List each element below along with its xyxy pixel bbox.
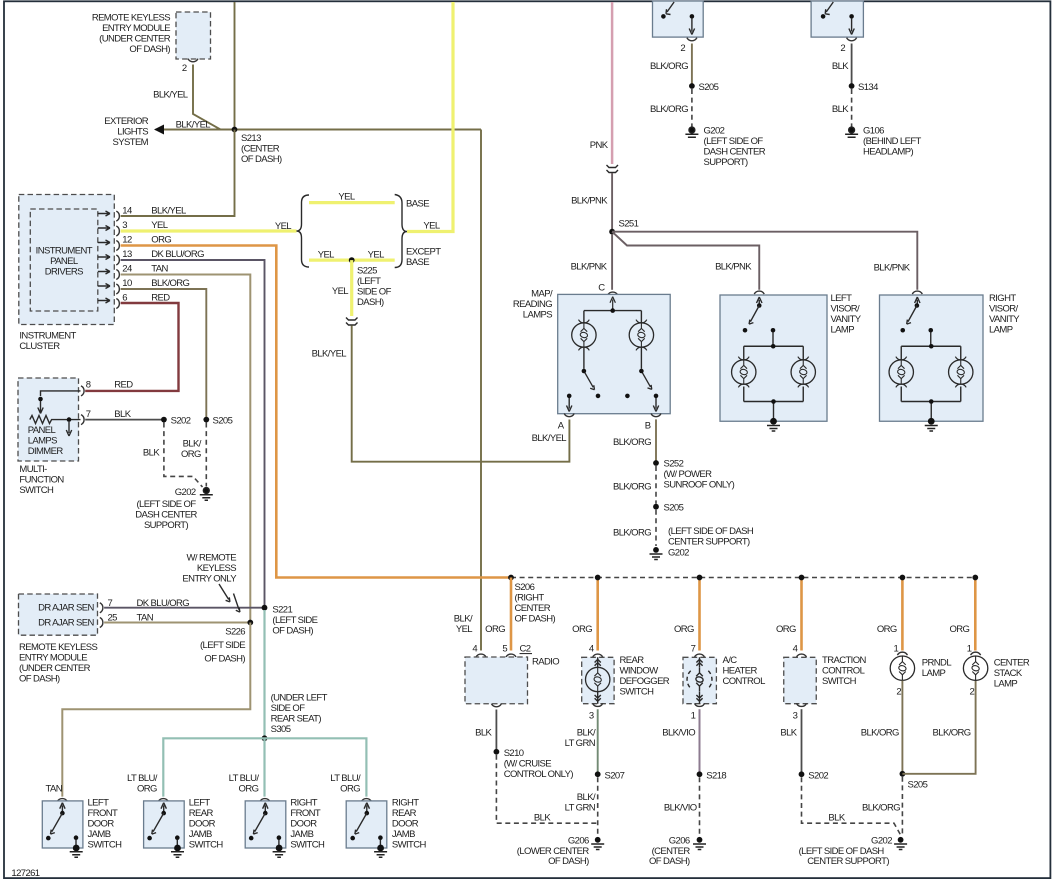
svg-text:BLK/ORG: BLK/ORG xyxy=(613,437,651,448)
svg-text:(RIGHT: (RIGHT xyxy=(515,593,545,604)
node S225 xyxy=(349,257,355,263)
svg-text:G202: G202 xyxy=(871,836,892,847)
svg-text:OF DASH): OF DASH) xyxy=(548,856,589,867)
svg-text:LAMPS: LAMPS xyxy=(523,310,552,321)
defogger illuminated bulb symbol xyxy=(595,657,601,703)
remote keyless entry module (top) xyxy=(92,12,211,59)
svg-text:JAMB: JAMB xyxy=(392,829,415,840)
svg-text:ORG: ORG xyxy=(485,624,505,635)
svg-text:BLK/ORG: BLK/ORG xyxy=(650,61,688,72)
brace left of YEL split xyxy=(297,195,310,267)
svg-text:BLK/ORG: BLK/ORG xyxy=(613,482,651,493)
svg-text:BLK: BLK xyxy=(832,104,849,115)
svg-text:MULTI-: MULTI- xyxy=(19,464,47,475)
brace right of except-base branch joining YEL feed xyxy=(395,195,407,268)
wire YEL base branch xyxy=(309,201,395,204)
wire BLK/VIO a/c to S218 xyxy=(699,709,701,774)
svg-text:3: 3 xyxy=(589,711,594,722)
svg-text:BLK/YEL: BLK/YEL xyxy=(153,90,188,101)
svg-text:CENTER SUPPORT): CENTER SUPPORT) xyxy=(807,856,889,867)
svg-text:PNK: PNK xyxy=(590,140,609,151)
radio box xyxy=(465,657,528,704)
w/ remote keyless entry only note xyxy=(182,553,237,585)
wire DK BLU/ORG pin 13 down to S221 xyxy=(121,260,265,608)
svg-text:LT GRN: LT GRN xyxy=(565,802,596,813)
svg-text:EXTERIOR: EXTERIOR xyxy=(104,116,149,127)
svg-text:G202: G202 xyxy=(668,547,689,558)
traction control switch box xyxy=(784,657,817,703)
svg-text:LAMP: LAMP xyxy=(994,679,1018,690)
center stack lamp bulb xyxy=(963,656,987,680)
svg-text:BLK/: BLK/ xyxy=(577,727,596,738)
svg-text:REAR SEAT): REAR SEAT) xyxy=(271,714,322,725)
break symbol on PNK wire xyxy=(607,165,619,168)
defogger pin 4 connector xyxy=(593,654,603,657)
svg-text:S252: S252 xyxy=(664,459,684,470)
svg-text:ENTRY MODULE: ENTRY MODULE xyxy=(19,653,87,664)
dashed BLK/ORG from S205 to G202 xyxy=(691,89,693,127)
stray contact xyxy=(625,394,630,399)
svg-text:(UNDER CENTER: (UNDER CENTER xyxy=(19,663,91,674)
a/c pin 1 connector xyxy=(695,703,705,706)
node S218 xyxy=(697,771,703,777)
left visor bottom rail to ground xyxy=(744,387,804,421)
svg-text:ORG: ORG xyxy=(877,624,897,635)
svg-text:BLK/PNK: BLK/PNK xyxy=(571,262,608,273)
pin 2 connector of keyless module xyxy=(188,59,198,62)
svg-text:PANEL: PANEL xyxy=(28,425,56,436)
wire BLK/PNK from break to S251 xyxy=(611,173,613,232)
wire ORG bus drop to traction control switch xyxy=(800,578,803,651)
svg-text:BLK/ORG: BLK/ORG xyxy=(862,802,900,813)
wire BLK/ORG prndl to S205 xyxy=(901,681,903,774)
ground G202 (left side of dash center support) xyxy=(200,488,213,501)
traction pin 4 connector xyxy=(797,654,807,657)
break symbol on S225 wire xyxy=(346,318,358,321)
svg-text:FUNCTION: FUNCTION xyxy=(19,475,64,486)
svg-text:CONTROL: CONTROL xyxy=(723,676,766,687)
node S202 xyxy=(161,417,167,423)
svg-text:(W/ POWER: (W/ POWER xyxy=(664,469,713,480)
svg-text:BLK/: BLK/ xyxy=(183,438,202,449)
svg-text:(CENTER: (CENTER xyxy=(241,144,280,155)
svg-text:LT BLU/: LT BLU/ xyxy=(127,773,158,784)
node S205 xyxy=(653,504,659,510)
svg-text:2: 2 xyxy=(896,686,901,697)
wire BLK/ORG center stack to S205 xyxy=(902,681,975,774)
map lamp left bulb xyxy=(572,320,596,351)
svg-text:2: 2 xyxy=(970,686,975,697)
instrument panel drivers inner box xyxy=(30,209,98,311)
arrow to exterior lights system xyxy=(154,125,164,135)
svg-text:VANITY: VANITY xyxy=(831,314,862,325)
svg-text:14: 14 xyxy=(122,206,132,217)
svg-text:RIGHT: RIGHT xyxy=(290,798,317,809)
svg-text:SWITCH: SWITCH xyxy=(189,840,224,851)
svg-text:DOOR: DOOR xyxy=(392,819,419,830)
wire YEL pin 3 to brace xyxy=(121,229,297,232)
rear window defogger switch box xyxy=(582,657,614,703)
pin 10 connector xyxy=(116,284,119,294)
radio ground pin connector xyxy=(491,704,501,707)
map lamp right bulb xyxy=(629,320,653,351)
wire BLK/LT GRN defogger to S207 xyxy=(597,709,599,774)
svg-text:BLK/VIO: BLK/VIO xyxy=(664,802,697,813)
svg-text:G206: G206 xyxy=(669,836,690,847)
wire ORG pin 12 down to S206 bus xyxy=(121,246,511,578)
svg-text:SIDE OF: SIDE OF xyxy=(357,287,392,298)
wire ORG bus drop to prndl lamp xyxy=(901,578,904,651)
instrument cluster outer box xyxy=(19,195,115,325)
svg-text:G202: G202 xyxy=(704,126,725,137)
svg-text:SWITCH: SWITCH xyxy=(88,840,123,851)
pin 14 connector xyxy=(116,211,119,221)
svg-text:BLK/VIO: BLK/VIO xyxy=(662,727,695,738)
svg-text:LAMP: LAMP xyxy=(831,325,855,336)
left visor bulb 2 xyxy=(791,357,815,388)
svg-text:(LEFT SIDE: (LEFT SIDE xyxy=(272,615,317,626)
svg-text:FRONT: FRONT xyxy=(88,808,119,819)
right visor bulb 1 xyxy=(889,357,913,388)
svg-text:VISOR/: VISOR/ xyxy=(831,304,861,315)
wire YEL from top feed to brace xyxy=(407,2,453,232)
svg-text:STACK: STACK xyxy=(994,668,1023,679)
svg-text:C: C xyxy=(598,283,605,294)
svg-text:DR AJAR SEN: DR AJAR SEN xyxy=(38,603,94,614)
svg-text:BLK/: BLK/ xyxy=(454,613,473,624)
right visor lamp rails xyxy=(928,328,933,333)
svg-text:ORG: ORG xyxy=(137,783,157,794)
svg-text:DOOR: DOOR xyxy=(290,819,317,830)
svg-text:(LEFT SIDE OF DASH: (LEFT SIDE OF DASH xyxy=(668,526,754,537)
node S202 xyxy=(799,771,805,777)
svg-text:BLK/PNK: BLK/PNK xyxy=(715,262,752,273)
svg-text:OF DASH): OF DASH) xyxy=(129,44,170,55)
svg-text:SYSTEM: SYSTEM xyxy=(113,137,149,148)
svg-text:G106: G106 xyxy=(863,126,884,137)
exterior lights system label xyxy=(104,116,149,148)
svg-text:DOOR: DOOR xyxy=(88,819,115,830)
svg-text:S226: S226 xyxy=(225,627,245,638)
svg-text:S251: S251 xyxy=(619,219,639,230)
svg-text:VISOR/: VISOR/ xyxy=(989,304,1019,315)
svg-text:TAN: TAN xyxy=(46,784,63,795)
svg-text:LIGHTS: LIGHTS xyxy=(117,127,148,138)
node S221 xyxy=(262,605,268,611)
svg-text:2: 2 xyxy=(840,43,845,54)
svg-text:B: B xyxy=(645,421,651,432)
svg-text:INSTRUMENT: INSTRUMENT xyxy=(36,246,93,257)
ground G106 (behind left headlamp) xyxy=(845,127,858,137)
node S305 xyxy=(262,735,268,741)
prndl lamp bulb xyxy=(890,656,914,680)
dashed BLK from S202 to G202 xyxy=(164,423,203,488)
pin A exit arrow xyxy=(567,394,572,399)
svg-text:YEL: YEL xyxy=(332,286,348,297)
svg-text:LAMPS: LAMPS xyxy=(28,436,57,447)
svg-text:SUPPORT): SUPPORT) xyxy=(144,520,189,531)
svg-text:FRONT: FRONT xyxy=(290,808,321,819)
dashed BLK/ORG S205 to G202 xyxy=(901,777,903,836)
svg-text:S305: S305 xyxy=(271,724,291,735)
svg-text:S207: S207 xyxy=(605,770,625,781)
svg-text:(LEFT: (LEFT xyxy=(357,276,381,287)
wire BLK/YEL horizontal through S213 xyxy=(156,129,482,131)
wire BLK radio to S210 xyxy=(495,710,497,752)
svg-text:VANITY: VANITY xyxy=(989,314,1020,325)
map/reading lamps box xyxy=(558,294,671,413)
svg-text:YEL: YEL xyxy=(318,250,334,261)
dashed splice bus S206 xyxy=(511,577,975,579)
svg-text:LAMP: LAMP xyxy=(922,668,946,679)
svg-text:RIGHT: RIGHT xyxy=(392,798,419,809)
wire BLK/ORG pin B to S252 xyxy=(655,419,657,463)
switch arm in right top box xyxy=(825,2,833,15)
svg-text:1: 1 xyxy=(967,643,972,654)
svg-text:S210: S210 xyxy=(504,748,524,759)
svg-text:3: 3 xyxy=(793,711,798,722)
wire YEL except-base branch xyxy=(309,259,395,262)
svg-text:DRIVERS: DRIVERS xyxy=(45,267,83,278)
svg-text:LT BLU/: LT BLU/ xyxy=(229,773,260,784)
map lamps internal feed xyxy=(584,297,642,323)
ground G202 (left side of dash center support) xyxy=(685,127,698,137)
svg-text:8: 8 xyxy=(86,380,91,391)
note arrow to S226 xyxy=(234,594,240,613)
left visor switch xyxy=(757,297,763,306)
svg-text:OF DASH): OF DASH) xyxy=(204,654,245,665)
wire BLK/YEL from break down to map lamp pin A xyxy=(352,326,570,462)
svg-text:S202: S202 xyxy=(171,415,191,426)
pin 7 connector xyxy=(81,415,84,425)
svg-text:(LEFT SIDE OF: (LEFT SIDE OF xyxy=(704,136,764,147)
svg-text:1: 1 xyxy=(691,711,696,722)
svg-text:(LEFT SIDE OF: (LEFT SIDE OF xyxy=(136,499,196,510)
svg-text:SIDE OF: SIDE OF xyxy=(271,703,306,714)
ground below right visor lamp xyxy=(928,418,935,425)
svg-text:BASE: BASE xyxy=(406,199,429,210)
svg-text:CONTROL: CONTROL xyxy=(822,666,865,677)
dashed BLK/ORG S205 to G202 xyxy=(655,510,657,546)
switch arm in left top box xyxy=(666,2,674,15)
svg-text:24: 24 xyxy=(122,264,132,275)
svg-text:3: 3 xyxy=(122,220,127,231)
dashed BLK/VIO S218 to G206 xyxy=(699,777,701,836)
svg-text:YEL: YEL xyxy=(338,192,354,203)
svg-text:DASH CENTER: DASH CENTER xyxy=(704,147,766,158)
wire TAN pin 24 down to S226 xyxy=(121,275,251,623)
wire BLK/ORG to S205 xyxy=(691,44,693,87)
svg-text:G202: G202 xyxy=(175,487,196,498)
svg-text:ORG: ORG xyxy=(239,783,259,794)
pin C connector xyxy=(608,292,618,295)
svg-text:JAMB: JAMB xyxy=(189,829,212,840)
svg-text:BLK: BLK xyxy=(114,409,131,420)
wire ORG bus drop to radio pin 5 xyxy=(510,578,513,651)
svg-text:HEADLAMP): HEADLAMP) xyxy=(863,147,913,158)
svg-text:BLK/YEL: BLK/YEL xyxy=(151,206,186,217)
svg-text:READING: READING xyxy=(513,299,552,310)
node S206 xyxy=(508,575,514,581)
right visor bottom rail to ground xyxy=(901,387,961,421)
svg-text:BLK/ORG: BLK/ORG xyxy=(933,727,971,738)
svg-text:BLK: BLK xyxy=(832,61,849,72)
svg-text:YEL: YEL xyxy=(368,250,384,261)
wire BLK/YEL from top border down to S213 xyxy=(234,2,236,130)
pin 3 connector xyxy=(116,226,119,236)
node S205 xyxy=(203,417,209,423)
left front door jamb switch xyxy=(42,798,122,858)
svg-text:CONTROL ONLY): CONTROL ONLY) xyxy=(504,769,574,780)
wire BLK pin 7 to S202 xyxy=(85,419,164,421)
courtesy lamps switch (top right partial box) xyxy=(811,1,863,37)
svg-text:SWITCH: SWITCH xyxy=(19,485,54,496)
radio pin 5 connector xyxy=(506,654,516,657)
svg-text:EXCEPT: EXCEPT xyxy=(406,247,441,258)
svg-text:DASH CENTER: DASH CENTER xyxy=(135,510,197,521)
svg-text:BASE: BASE xyxy=(406,257,429,268)
defogger pin 3 connector xyxy=(593,703,603,706)
a/c pin 7 connector xyxy=(695,654,705,657)
svg-text:S202: S202 xyxy=(808,770,828,781)
pin 6 connector xyxy=(116,299,119,309)
svg-text:(W/ CRUISE: (W/ CRUISE xyxy=(504,758,552,769)
svg-text:7: 7 xyxy=(691,643,696,654)
svg-text:SUPPORT): SUPPORT) xyxy=(704,157,749,168)
dr ajar sensor module box xyxy=(19,594,98,635)
pin 7 connector xyxy=(100,603,103,613)
panel lamps dimmer box xyxy=(18,378,79,461)
left visor vanity lamp box xyxy=(720,295,827,421)
dashed BLK/ORG S252 to S205 xyxy=(655,466,657,504)
svg-text:YEL: YEL xyxy=(275,221,291,232)
svg-text:DIMMER: DIMMER xyxy=(28,446,64,457)
map lamp left switch xyxy=(584,348,595,390)
svg-text:S134: S134 xyxy=(858,82,878,93)
svg-text:BLK/ORG: BLK/ORG xyxy=(650,104,688,115)
wire ORG bus drop to a/c heater control xyxy=(698,578,701,651)
dashed BLK S202 to G202 xyxy=(802,777,901,835)
svg-text:12: 12 xyxy=(122,235,132,246)
svg-text:BLK: BLK xyxy=(475,727,492,738)
svg-text:REMOTE KEYLESS: REMOTE KEYLESS xyxy=(92,13,170,24)
pin 24 connector xyxy=(116,270,119,280)
svg-text:PANEL: PANEL xyxy=(50,256,78,267)
a/c illuminated indicator symbol xyxy=(696,657,702,703)
svg-text:SUNROOF ONLY): SUNROOF ONLY) xyxy=(664,480,735,491)
svg-text:JAMB: JAMB xyxy=(88,829,111,840)
center stack pin 1 connector xyxy=(971,652,981,655)
svg-text:13: 13 xyxy=(122,249,132,260)
svg-text:LT BLU/: LT BLU/ xyxy=(330,773,361,784)
svg-text:BLK/YEL: BLK/YEL xyxy=(176,120,211,131)
wiper arm with arrow xyxy=(67,417,72,422)
svg-text:A/C: A/C xyxy=(723,655,738,666)
svg-text:YEL: YEL xyxy=(151,220,167,231)
wire BLK/YEL pin 14 up to S213 xyxy=(121,130,235,217)
svg-text:WINDOW: WINDOW xyxy=(620,666,659,677)
wire BLK traction to S202 xyxy=(801,709,803,774)
dashed BLK S210 to G206 xyxy=(496,755,597,824)
wire TAN S226 down to left front door jamb switch xyxy=(62,623,250,797)
svg-text:PRNDL: PRNDL xyxy=(922,658,952,669)
ground below left visor lamp xyxy=(770,418,777,425)
svg-text:S205: S205 xyxy=(908,779,928,790)
wire ORG bus drop to center stack lamp xyxy=(974,578,977,651)
note arrow to S221 xyxy=(219,584,230,602)
svg-text:BLK/PNK: BLK/PNK xyxy=(874,263,911,274)
svg-text:DEFOGGER: DEFOGGER xyxy=(620,676,670,687)
svg-text:7: 7 xyxy=(86,409,91,420)
node S213 xyxy=(232,127,238,133)
svg-text:SWITCH: SWITCH xyxy=(822,676,857,687)
svg-text:ORG: ORG xyxy=(181,449,201,460)
svg-text:BLK: BLK xyxy=(143,448,160,459)
wire TAN pin 25 to S226 xyxy=(104,622,250,624)
svg-text:10: 10 xyxy=(122,278,132,289)
wire YEL from S225 down to break xyxy=(350,260,353,316)
svg-text:RED: RED xyxy=(114,380,133,391)
dashed BLK from S134 to G106 xyxy=(851,89,853,127)
dashed BLK/LT GRN S207 to G206 xyxy=(597,777,599,836)
svg-text:REAR: REAR xyxy=(392,808,417,819)
map lamp right switch xyxy=(641,348,651,390)
svg-text:DASH): DASH) xyxy=(357,297,384,308)
ground G202 below S205 xyxy=(653,547,659,553)
svg-text:CENTER: CENTER xyxy=(994,658,1030,669)
svg-text:SWITCH: SWITCH xyxy=(620,687,655,698)
a/c heater control box xyxy=(683,657,716,703)
svg-text:(UNDER LEFT: (UNDER LEFT xyxy=(271,693,328,704)
svg-text:BLK/: BLK/ xyxy=(577,792,596,803)
ground G206 lower center of dash xyxy=(595,837,601,843)
dimmer internal feed from pin 8 xyxy=(41,391,81,396)
wire BLK/ORG pin 10 down to S205 xyxy=(121,289,207,420)
svg-text:HEATER: HEATER xyxy=(723,666,758,677)
svg-text:LT GRN: LT GRN xyxy=(565,738,596,749)
svg-text:S221: S221 xyxy=(272,605,292,616)
svg-text:DR AJAR SEN: DR AJAR SEN xyxy=(38,618,94,629)
svg-text:CLUSTER: CLUSTER xyxy=(19,341,60,352)
svg-text:LEFT: LEFT xyxy=(88,798,110,809)
ground G202 left side of dash center support xyxy=(898,837,904,843)
svg-text:S205: S205 xyxy=(213,415,233,426)
svg-text:S205: S205 xyxy=(699,82,719,93)
traction pin 3 connector xyxy=(797,703,807,706)
svg-text:BLK: BLK xyxy=(828,813,845,824)
svg-text:C2: C2 xyxy=(520,643,531,654)
wire PNK from top feed xyxy=(611,2,614,164)
svg-text:2: 2 xyxy=(182,63,187,74)
svg-text:S218: S218 xyxy=(706,770,726,781)
svg-text:2: 2 xyxy=(680,43,685,54)
svg-text:4: 4 xyxy=(589,643,594,654)
pin 12 connector xyxy=(116,241,119,251)
pin 2 connector below left top box xyxy=(687,38,697,41)
svg-text:ENTRY MODULE: ENTRY MODULE xyxy=(102,23,170,34)
wire ORG bus drop to defogger xyxy=(596,578,599,651)
wire LT BLU/ORG S221 down to S305 xyxy=(263,610,265,738)
svg-text:S213: S213 xyxy=(241,133,261,144)
svg-text:YEL: YEL xyxy=(423,221,439,232)
svg-text:OF DASH): OF DASH) xyxy=(272,626,313,637)
pin 13 connector xyxy=(116,255,119,265)
svg-text:S205: S205 xyxy=(664,503,684,514)
svg-text:BLK/ORG: BLK/ORG xyxy=(151,278,189,289)
svg-text:127261: 127261 xyxy=(11,868,39,879)
svg-text:REAR: REAR xyxy=(189,808,214,819)
svg-text:LEFT: LEFT xyxy=(189,798,211,809)
